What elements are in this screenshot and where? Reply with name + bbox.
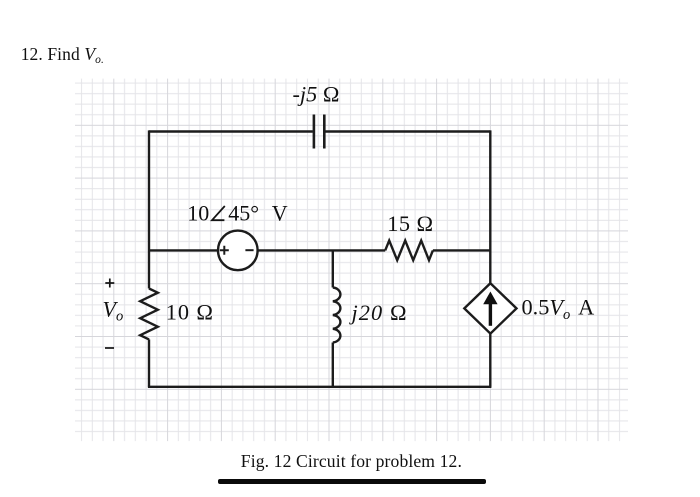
svg-text:15 Ω: 15 Ω [387, 211, 433, 236]
node label plus [105, 279, 114, 288]
wire top (capacitor to right corner) [325, 130, 490, 132]
caption underline bar [218, 479, 486, 484]
inductor L1 loops [333, 288, 341, 343]
svg-text:45°: 45° [228, 201, 259, 226]
svg-text:10: 10 [187, 201, 209, 226]
svg-text:-j5 Ω: -j5 Ω [293, 82, 340, 107]
svg-text:j20 Ω: j20 Ω [349, 300, 408, 325]
wire left vertical [148, 130, 150, 288]
voltage source minus sign [245, 249, 253, 251]
current source arrow [489, 302, 492, 326]
wire middle horizontal [149, 249, 490, 251]
wire bottom [148, 386, 492, 388]
wire right lower vertical [489, 332, 491, 386]
svg-text:Fig. 12 Circuit for problem 12: Fig. 12 Circuit for problem 12. [241, 451, 462, 471]
node label minus [105, 347, 114, 349]
svg-text:12. Find Vo.: 12. Find Vo. [21, 44, 104, 66]
wire left lower [148, 339, 150, 386]
svg-text:0.5Vo A: 0.5Vo A [522, 295, 595, 323]
voltage source V1 circle [218, 231, 258, 271]
capacitor C1 plates [314, 115, 324, 149]
wire right upper vertical [489, 130, 491, 284]
voltage source plus sign [220, 246, 229, 255]
svg-text:10 Ω: 10 Ω [166, 300, 214, 325]
svg-text:V: V [272, 201, 288, 226]
dependent current source D1 diamond [464, 283, 516, 333]
wire middle branch upper [332, 250, 334, 287]
resistor R2 15 ohm zigzag [385, 241, 433, 261]
resistor R1 10 ohm zigzag [140, 289, 158, 340]
wire middle branch lower [332, 343, 334, 387]
grid paper background [75, 79, 628, 442]
angle symbol [212, 206, 225, 220]
wire top (left segment to capacitor) [149, 130, 313, 132]
